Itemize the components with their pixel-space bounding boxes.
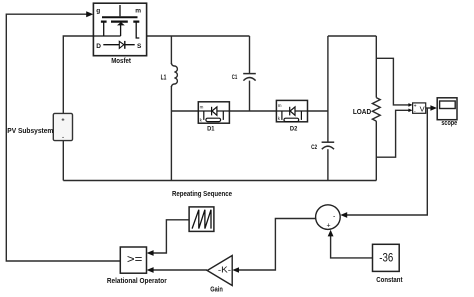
wire C1 bottom lead bbox=[249, 81, 251, 111]
svg-text:-K-: -K- bbox=[218, 264, 231, 274]
svg-text:-: - bbox=[62, 135, 64, 141]
wire PV- to rail bbox=[62, 141, 64, 181]
relational operator block bbox=[120, 247, 146, 273]
arrow into V- port bbox=[408, 109, 412, 113]
svg-text:Constant: Constant bbox=[376, 277, 403, 284]
arrow into sum bottom bbox=[328, 230, 334, 237]
wire V+ sense bbox=[376, 58, 409, 105]
constant block -36 bbox=[373, 244, 400, 271]
arrowheads bbox=[86, 11, 437, 273]
wire V- sense bbox=[376, 110, 409, 157]
arrow into V+ port bbox=[408, 103, 412, 107]
svg-text:Relational Operator: Relational Operator bbox=[107, 278, 167, 285]
svg-text:LOAD: LOAD bbox=[353, 109, 371, 116]
wire load bottom lead bbox=[375, 121, 377, 180]
wire gate feedback: relational operator output to Mosfet g bbox=[6, 14, 120, 261]
PV subsystem block bbox=[53, 113, 72, 140]
wire top bus Mosfet S to C1 bbox=[147, 35, 250, 37]
svg-text:Gain: Gain bbox=[210, 286, 223, 293]
arrow into scope bbox=[430, 105, 437, 111]
repeating sequence block bbox=[189, 207, 214, 232]
mosfet U1 block bbox=[93, 3, 146, 56]
svg-text:+: + bbox=[61, 118, 64, 124]
svg-text:PV Subsystem: PV Subsystem bbox=[7, 128, 53, 135]
svg-text:C2: C2 bbox=[311, 144, 317, 151]
diode D2 block bbox=[276, 100, 307, 121]
scope block bbox=[437, 98, 457, 120]
arrow into gain bbox=[232, 267, 239, 273]
gain block -K- bbox=[207, 256, 232, 286]
svg-text:-36: -36 bbox=[379, 251, 393, 265]
svg-text:m: m bbox=[278, 103, 282, 108]
wire constant to sum bbox=[331, 235, 373, 258]
wire C2 branch upper bbox=[327, 36, 329, 142]
wire PV+ to Mosfet D bbox=[63, 36, 93, 113]
svg-text:Repeating Sequence: Repeating Sequence bbox=[172, 191, 232, 198]
diode D1 block bbox=[198, 102, 229, 123]
svg-text:m: m bbox=[200, 104, 204, 109]
svg-text:+: + bbox=[327, 223, 331, 230]
wire L1 bottom to rail bbox=[170, 86, 172, 181]
svg-text:g: g bbox=[96, 8, 100, 15]
svg-text:scope: scope bbox=[441, 120, 457, 127]
wire C2 bottom lead bbox=[327, 149, 329, 180]
capacitor C1 bbox=[243, 74, 256, 81]
wire C1 top lead bbox=[249, 36, 251, 73]
arrow into relational operator top bbox=[147, 250, 154, 256]
wire load top lead bbox=[375, 36, 377, 98]
resistor LOAD zigzag bbox=[372, 98, 380, 122]
svg-text:D1: D1 bbox=[207, 125, 215, 132]
wire repeating sequence to relational operator bbox=[152, 220, 190, 253]
arrow into Mosfet g bbox=[86, 11, 93, 17]
arrow into sum right bbox=[340, 212, 347, 218]
svg-text:D2: D2 bbox=[290, 125, 298, 132]
wire gain output to relational operator bbox=[152, 269, 208, 271]
sum block bbox=[316, 205, 341, 230]
wire mid bus D1 to D2 bbox=[229, 110, 276, 112]
svg-text:C1: C1 bbox=[232, 74, 238, 81]
inductor L1 bbox=[171, 63, 177, 87]
wire sum output to gain bbox=[238, 219, 316, 271]
svg-text:S: S bbox=[137, 43, 142, 50]
arrow into relational operator bottom bbox=[147, 267, 154, 273]
wire top right segment to load bbox=[328, 35, 376, 37]
wire mid bus D2 to C2 node bbox=[307, 110, 328, 112]
svg-text:m: m bbox=[135, 8, 141, 15]
svg-text:Mosfet: Mosfet bbox=[111, 58, 131, 65]
wire V output to scope bbox=[426, 107, 432, 109]
wire feedback V node down to sum bbox=[345, 108, 427, 215]
wire mid bus L1 to D1 bbox=[171, 110, 198, 112]
wire L1 branch top bbox=[170, 36, 172, 64]
wire bottom rail bbox=[63, 180, 376, 182]
svg-text:>=: >= bbox=[127, 252, 143, 266]
voltage measurement block V bbox=[413, 103, 426, 115]
svg-text:L1: L1 bbox=[161, 74, 167, 81]
svg-text:D: D bbox=[96, 43, 101, 50]
capacitor C2 bbox=[322, 142, 335, 149]
svg-text:V: V bbox=[420, 105, 425, 114]
